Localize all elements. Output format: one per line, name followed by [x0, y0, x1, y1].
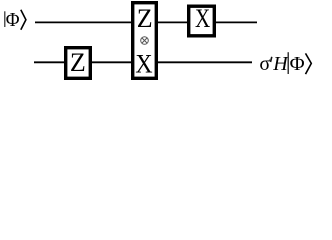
- svg-text:σ: σ: [259, 53, 270, 75]
- node output label sigma' H |Phi> (bottom qubit): [259, 52, 311, 75]
- gate X (top qubit): [189, 4, 215, 36]
- svg-text:X: X: [195, 4, 210, 33]
- gate Z (bottom qubit): [66, 48, 91, 79]
- two-qubit box outline: [133, 3, 157, 79]
- quantum circuit: teleportation-style correction circuit: [0, 0, 332, 84]
- ket vertical bar: [4, 11, 6, 27]
- ket angle bracket: [21, 10, 26, 30]
- wire bottom qubit, segment from Z gate to Z⊗X box: [90, 61, 133, 63]
- gate X box outline: [189, 6, 215, 36]
- ket angle bracket: [306, 53, 312, 74]
- svg-text:Φ: Φ: [290, 53, 305, 75]
- node |Phi> input ket label (top qubit): [5, 9, 26, 31]
- wire bottom qubit, segment before Z gate: [34, 61, 67, 63]
- wire top qubit, segment from ket to Z⊗X box: [35, 21, 133, 23]
- ket vertical bar: [287, 52, 289, 74]
- wire top qubit, segment after X gate: [213, 21, 257, 23]
- svg-text:X: X: [135, 49, 152, 78]
- svg-text:Z: Z: [70, 48, 86, 77]
- gate Z box outline: [66, 48, 91, 79]
- svg-text:H: H: [272, 53, 289, 75]
- svg-text:Z: Z: [137, 4, 153, 33]
- tensor product symbol ⊗: [141, 37, 149, 45]
- wire bottom qubit, segment from Z⊗X box to output label: [156, 61, 252, 63]
- wire top qubit, segment from Z⊗X box to X gate: [156, 21, 189, 23]
- prime mark: [271, 57, 272, 62]
- svg-text:Φ: Φ: [6, 9, 20, 31]
- gate Z⊗X two-qubit box: [133, 3, 157, 79]
